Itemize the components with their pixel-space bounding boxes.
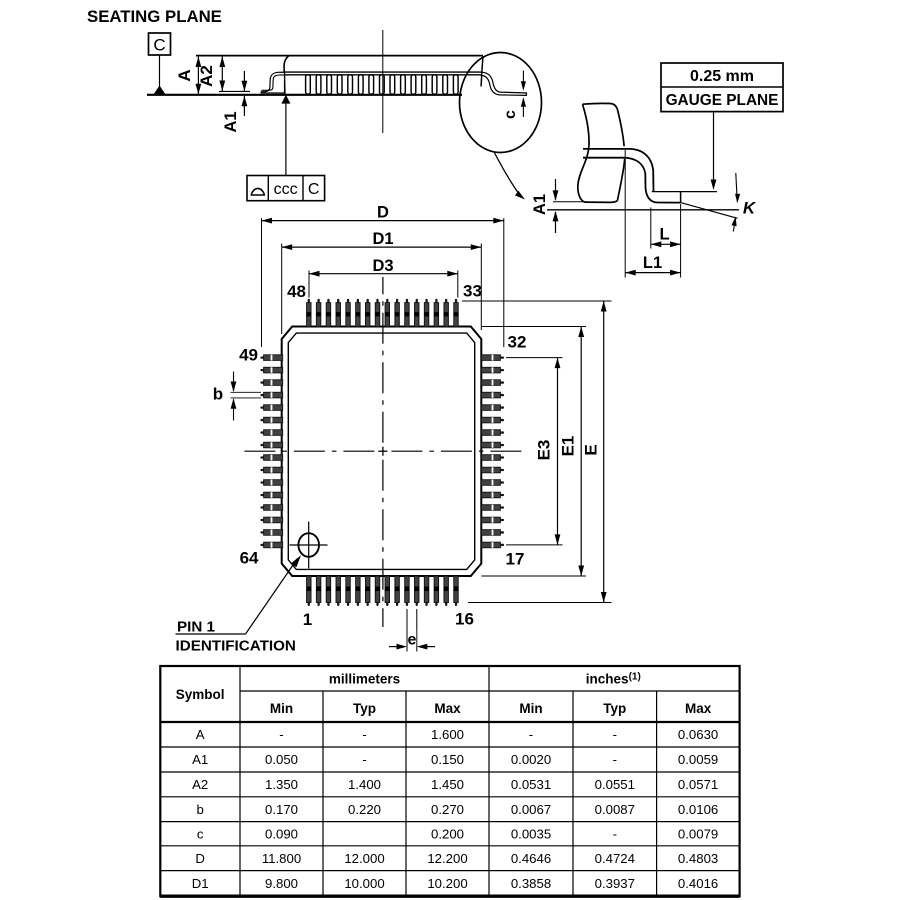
top view: pin 32 (right row) xyxy=(499,356,504,358)
svg-text:0.090: 0.090 xyxy=(265,826,298,841)
top view: pin 59 (left row) xyxy=(260,481,265,483)
svg-text:0.0551: 0.0551 xyxy=(595,777,635,792)
top view: pin 34 (top row) xyxy=(445,299,447,304)
top view: pin 2 (bottom row) xyxy=(317,599,319,606)
top view: pin 31 (right row) xyxy=(499,369,504,371)
svg-text:-: - xyxy=(362,727,366,742)
top view: pin 11 (bottom row) xyxy=(406,599,408,606)
svg-text:L: L xyxy=(659,226,669,244)
svg-text:Min: Min xyxy=(270,701,293,716)
top view: pin 3 (bottom row) xyxy=(327,599,329,606)
svg-text:0.0571: 0.0571 xyxy=(678,777,718,792)
table: inner row lines xyxy=(160,746,739,748)
top view: pin 36 (top row) xyxy=(425,299,427,304)
svg-text:K: K xyxy=(743,199,757,218)
svg-text:12.000: 12.000 xyxy=(344,851,384,866)
top view: package body outer outline (chamfered) xyxy=(282,327,482,577)
svg-text:0.4724: 0.4724 xyxy=(595,851,635,866)
svg-text:0.270: 0.270 xyxy=(431,802,464,817)
svg-text:E3: E3 xyxy=(535,440,554,461)
svg-text:1.350: 1.350 xyxy=(265,777,298,792)
top view: pin 14 (bottom row) xyxy=(435,599,437,606)
top view: pin 27 (right row) xyxy=(499,419,504,421)
side view: magnifier circle xyxy=(460,53,542,153)
svg-text:-: - xyxy=(613,826,617,841)
svg-text:C: C xyxy=(153,36,165,55)
top view: pin 47 (top row) xyxy=(317,299,319,304)
side view: datum C filled triangle on seating plane xyxy=(154,86,166,95)
side view: seating plane line xyxy=(147,94,462,96)
svg-text:A: A xyxy=(175,69,194,81)
svg-text:0.0059: 0.0059 xyxy=(678,752,718,767)
top view: pin 45 (top row) xyxy=(337,299,339,304)
svg-text:E: E xyxy=(582,444,601,455)
svg-text:0.050: 0.050 xyxy=(265,752,298,767)
svg-text:0.25 mm: 0.25 mm xyxy=(690,68,754,85)
top view: pin 12 (bottom row) xyxy=(416,599,418,606)
table: thick bottom border xyxy=(160,895,739,898)
top view: dimension E3 xyxy=(506,357,563,359)
top view: pin 4 (bottom row) xyxy=(337,599,339,606)
dimension table: outer border xyxy=(160,666,739,896)
top view: pin 42 (top row) xyxy=(367,299,369,304)
top view: dimension D1 xyxy=(281,244,283,335)
top view: package body inner outline xyxy=(288,333,474,569)
lead detail: bent lead with foot xyxy=(583,149,654,192)
top view: center mark cross xyxy=(378,450,387,452)
top view: pin 1 (bottom row) xyxy=(308,599,310,606)
top view: pin 17 (right row) xyxy=(499,544,504,546)
side view: leftmost lead profile (bent lead with foot) xyxy=(261,72,284,93)
top view: pin 49 (left row) xyxy=(260,356,265,358)
svg-text:0.0067: 0.0067 xyxy=(511,802,551,817)
top view: pin 53 (left row) xyxy=(260,406,265,408)
top view: pin 35 (top row) xyxy=(435,299,437,304)
svg-text:e: e xyxy=(407,632,416,649)
svg-text:E1: E1 xyxy=(559,436,578,457)
top view: pin 37 (top row) xyxy=(416,299,418,304)
top view: pin 57 (left row) xyxy=(260,456,265,458)
top view: pin 29 (right row) xyxy=(499,394,504,396)
svg-text:c: c xyxy=(502,110,519,119)
svg-text:0.3937: 0.3937 xyxy=(595,876,635,891)
top view: pin 23 (right row) xyxy=(499,469,504,471)
side view: dimension A1 arrows xyxy=(243,71,245,91)
top view: pin 15 (bottom row) xyxy=(445,599,447,606)
svg-text:1: 1 xyxy=(303,610,312,629)
top view: pin 51 (left row) xyxy=(260,381,265,383)
svg-text:A2: A2 xyxy=(192,777,208,792)
top view: pin 9 (bottom row) xyxy=(386,599,388,606)
top view: pin 40 (top row) xyxy=(386,299,388,304)
top view: pin 7 (bottom row) xyxy=(367,599,369,606)
top view: pin 22 (right row) xyxy=(499,481,504,483)
magnifier pointer curved arrow xyxy=(494,152,521,197)
side view: right lead profile inside magnifier (Z bend + foot) xyxy=(482,72,527,95)
top view: pin 63 (left row) xyxy=(260,531,265,533)
top view: pin 19 (right row) xyxy=(499,519,504,521)
side view: package body right edge xyxy=(481,56,483,87)
svg-text:Max: Max xyxy=(685,701,712,716)
lead detail: gauge plane line xyxy=(652,191,717,193)
side view: lead comb (leads seen through, 15 bars) xyxy=(306,75,311,94)
svg-text:1.600: 1.600 xyxy=(431,727,464,742)
svg-text:10.000: 10.000 xyxy=(344,876,384,891)
top view: pin 55 (left row) xyxy=(260,431,265,433)
side view: leader to feature control frame xyxy=(285,104,287,176)
lead detail: seating plane line xyxy=(547,209,739,211)
side view: dimension c arrows (lead thickness) xyxy=(522,71,524,90)
svg-text:0.3858: 0.3858 xyxy=(511,876,551,891)
svg-text:0.4016: 0.4016 xyxy=(678,876,718,891)
svg-text:D1: D1 xyxy=(372,230,393,248)
svg-text:0.200: 0.200 xyxy=(431,826,464,841)
lead detail: dimension K arrows xyxy=(736,173,737,201)
svg-text:ccc: ccc xyxy=(274,181,298,198)
svg-text:D: D xyxy=(195,851,205,866)
top view: pin 5 (bottom row) xyxy=(347,599,349,606)
svg-text:-: - xyxy=(613,752,617,767)
top view: dimension E xyxy=(462,300,612,302)
top view: horizontal centerline xyxy=(391,450,524,452)
svg-text:17: 17 xyxy=(506,550,525,569)
svg-text:Typ: Typ xyxy=(603,701,626,716)
svg-text:b: b xyxy=(213,385,223,404)
svg-text:33: 33 xyxy=(463,282,482,301)
side view: vertical centerline xyxy=(382,30,384,133)
top view: pin 25 (right row) xyxy=(499,444,504,446)
lead detail: package body blob xyxy=(578,104,589,202)
side view: lead shoulder band (two lines) xyxy=(285,71,482,73)
top view: pin 43 (top row) xyxy=(357,299,359,304)
side view: package top line xyxy=(196,55,483,57)
svg-text:A1: A1 xyxy=(222,111,240,132)
table: thick header separator xyxy=(160,721,739,723)
svg-text:0.0035: 0.0035 xyxy=(511,826,551,841)
top view: pin 44 (top row) xyxy=(347,299,349,304)
svg-text:IDENTIFICATION: IDENTIFICATION xyxy=(176,638,296,655)
svg-text:0.220: 0.220 xyxy=(348,802,381,817)
svg-text:10.200: 10.200 xyxy=(427,876,467,891)
top view: pin 41 (top row) xyxy=(376,299,378,304)
top view: pin 1 identification circle xyxy=(298,533,319,557)
svg-text:L1: L1 xyxy=(643,254,662,272)
top view: pin 38 (top row) xyxy=(406,299,408,304)
svg-text:D: D xyxy=(377,204,389,222)
svg-text:b: b xyxy=(196,802,203,817)
top view: dimension E1 xyxy=(481,326,586,328)
svg-text:9.800: 9.800 xyxy=(265,876,298,891)
svg-text:0.0087: 0.0087 xyxy=(595,802,635,817)
lead detail: K angle line xyxy=(681,203,738,219)
side view: datum C symbol box xyxy=(149,33,171,55)
top view: pin 13 (bottom row) xyxy=(425,599,427,606)
lead detail: dimension A1 arrows xyxy=(555,179,557,200)
svg-text:12.200: 12.200 xyxy=(427,851,467,866)
svg-text:A2: A2 xyxy=(197,65,216,87)
top view: pin 56 (left row) xyxy=(260,444,265,446)
svg-text:0.4646: 0.4646 xyxy=(511,851,551,866)
svg-text:D1: D1 xyxy=(192,876,209,891)
svg-text:D3: D3 xyxy=(372,257,393,275)
svg-text:-: - xyxy=(529,727,533,742)
top view: pin 28 (right row) xyxy=(499,406,504,408)
svg-text:Min: Min xyxy=(519,701,542,716)
side view: dimension A arrows xyxy=(197,56,199,94)
svg-text:0.0531: 0.0531 xyxy=(511,777,551,792)
svg-text:1.400: 1.400 xyxy=(348,777,381,792)
svg-text:0.0106: 0.0106 xyxy=(678,802,718,817)
side view: dimension A2 arrows xyxy=(221,56,223,91)
svg-text:0.0630: 0.0630 xyxy=(678,727,718,742)
side view: feature control frame (profile ccc C) xyxy=(247,176,325,201)
svg-text:PIN 1: PIN 1 xyxy=(177,619,216,636)
svg-text:GAUGE PLANE: GAUGE PLANE xyxy=(666,92,779,109)
svg-text:C: C xyxy=(308,181,320,198)
svg-text:A1: A1 xyxy=(531,194,549,215)
svg-text:0.4803: 0.4803 xyxy=(678,851,718,866)
top view: pin 52 (left row) xyxy=(260,394,265,396)
feature control frame: surface profile symbol xyxy=(251,188,265,195)
top view: pin 64 (left row) xyxy=(260,544,265,546)
table: column lines xyxy=(239,666,241,896)
table: millimeters/inches divider xyxy=(240,690,740,692)
svg-text:49: 49 xyxy=(239,346,258,365)
svg-text:64: 64 xyxy=(240,549,259,568)
side view: datum target triangle under leads xyxy=(281,95,290,104)
svg-text:Typ: Typ xyxy=(353,701,376,716)
top view: pin 58 (left row) xyxy=(260,469,265,471)
top view: pin 18 (right row) xyxy=(499,531,504,533)
svg-text:0.170: 0.170 xyxy=(265,802,298,817)
top view: pin 61 (left row) xyxy=(260,506,265,508)
svg-text:11.800: 11.800 xyxy=(262,851,301,866)
side view: package body left edge xyxy=(284,56,288,94)
svg-text:-: - xyxy=(279,727,283,742)
svg-text:0.0020: 0.0020 xyxy=(511,752,551,767)
svg-text:A1: A1 xyxy=(192,752,208,767)
svg-text:-: - xyxy=(362,752,366,767)
top view: pin 60 (left row) xyxy=(260,494,265,496)
lead detail: A1 extension line xyxy=(553,201,586,203)
top view: pin 33 (top row) xyxy=(455,299,457,304)
svg-text:1.450: 1.450 xyxy=(431,777,464,792)
lead detail: dimension L xyxy=(650,208,652,249)
top view: pin 39 (top row) xyxy=(396,299,398,304)
top view: pin 16 (bottom row) xyxy=(455,599,457,606)
svg-text:0.150: 0.150 xyxy=(431,752,464,767)
top view: pin 24 (right row) xyxy=(499,456,504,458)
svg-text:Max: Max xyxy=(434,701,461,716)
svg-text:16: 16 xyxy=(455,610,474,629)
top view: pin 10 (bottom row) xyxy=(396,599,398,606)
top view: pin 62 (left row) xyxy=(260,519,265,521)
top view: dimension D3 xyxy=(308,271,310,298)
top view: pin 26 (right row) xyxy=(499,431,504,433)
top view: pin 30 (right row) xyxy=(499,381,504,383)
top view: pin 8 (bottom row) xyxy=(376,599,378,606)
svg-text:Symbol: Symbol xyxy=(176,687,225,702)
top view: pin 21 (right row) xyxy=(499,494,504,496)
top view: dimension b xyxy=(231,391,262,393)
svg-text:0.0079: 0.0079 xyxy=(678,826,718,841)
top view: pin 46 (top row) xyxy=(327,299,329,304)
svg-text:48: 48 xyxy=(287,282,306,301)
top view: pin 54 (left row) xyxy=(260,419,265,421)
top view: vertical centerline xyxy=(382,277,384,443)
top view: dimension D xyxy=(261,218,263,347)
top view: pin 20 (right row) xyxy=(499,506,504,508)
side view: A1 reference extension line xyxy=(219,90,250,92)
svg-text:SEATING PLANE: SEATING PLANE xyxy=(87,7,222,26)
lead detail: dimension L1 xyxy=(624,150,626,278)
top view: pin 50 (left row) xyxy=(260,369,265,371)
svg-text:-: - xyxy=(613,727,617,742)
gauge plane leader arrow xyxy=(713,112,715,187)
top view: dimension e xyxy=(406,609,408,652)
svg-text:A: A xyxy=(196,727,205,742)
gauge plane label box xyxy=(661,63,783,112)
top view: pin 6 (bottom row) xyxy=(357,599,359,606)
svg-text:c: c xyxy=(197,826,204,841)
side view: datum C leader line xyxy=(159,55,161,88)
svg-text:32: 32 xyxy=(508,333,527,352)
top view: pin 48 (top row) xyxy=(308,299,310,304)
svg-text:millimeters: millimeters xyxy=(329,672,400,687)
